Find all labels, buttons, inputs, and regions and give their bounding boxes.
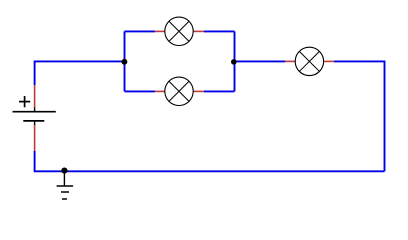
lamp L3 left pin xyxy=(285,60,295,62)
battery plus label xyxy=(19,96,30,107)
lamp L3 xyxy=(295,47,323,75)
wire bottom branch right xyxy=(204,90,235,92)
lamp L2 right pin xyxy=(193,90,204,92)
lamp L3 right pin xyxy=(324,60,335,62)
lamp L1 xyxy=(165,17,193,45)
node junction right xyxy=(231,59,237,65)
wire right node to series lamp xyxy=(235,60,286,62)
battery V1 xyxy=(13,108,56,126)
lamp L2 left pin xyxy=(155,90,165,92)
ground xyxy=(57,171,74,199)
node junction ground xyxy=(61,168,67,174)
wire parallel left vertical xyxy=(124,31,126,91)
wire top branch right xyxy=(204,30,235,32)
wire bottom branch left xyxy=(125,90,156,92)
battery V1 bottom pin xyxy=(34,125,36,152)
battery V1 top pin xyxy=(34,85,36,108)
lamp L1 left pin xyxy=(155,30,165,32)
wire top branch left xyxy=(125,30,156,32)
node junction left xyxy=(121,59,127,65)
lamp L2 xyxy=(165,77,193,105)
wire battery top to left node xyxy=(35,61,125,85)
wire bottom return xyxy=(35,151,385,171)
lamp L1 right pin xyxy=(193,30,204,32)
wire parallel right vertical xyxy=(234,31,236,91)
wire series lamp to right edge down xyxy=(334,61,385,171)
